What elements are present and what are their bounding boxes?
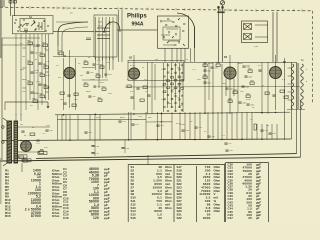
capacitor C35: [167, 95, 169, 96]
resistor R6: [40, 74, 45, 77]
svg-text:C51: C51: [122, 121, 127, 123]
wire: drop comb 1: [217, 112, 219, 140]
wire: bus bundle left 6: [37, 34, 39, 110]
svg-text:C72: C72: [97, 60, 102, 62]
wire: drop comb 5: [236, 112, 238, 140]
capacitor C43: [181, 103, 183, 104]
svg-text:C72: C72: [192, 69, 197, 71]
svg-text:R19: R19: [165, 79, 168, 81]
svg-text:0,1: 0,1: [282, 79, 286, 81]
resistor R8: [44, 86, 49, 89]
wire: S3 lead 5: [184, 48, 186, 62]
svg-text:b: b: [306, 81, 308, 83]
wire: drop comb short 1: [256, 124, 258, 140]
coil arc over S3: [177, 13, 195, 48]
svg-text:C43: C43: [248, 76, 251, 78]
S1 internal contact 11: [34, 29, 36, 31]
svg-text:100: 100: [74, 99, 78, 101]
junction on earth bus: [194, 139, 196, 141]
svg-text:1M: 1M: [266, 125, 269, 127]
svg-text:1M: 1M: [80, 75, 83, 77]
S1 internal contact 5: [33, 20, 35, 22]
resistor R2: [43, 44, 48, 47]
wire: [208, 62, 210, 100]
capacitor C38: [163, 99, 165, 100]
svg-text:1M: 1M: [155, 59, 158, 61]
wire: S2 lead down 1: [95, 57, 97, 70]
wire: drop mid 8: [184, 112, 186, 140]
junction: [103, 31, 105, 33]
wire: stub at chassis line: [199, 8, 201, 11]
wire: bus bundle left 1: [15, 34, 17, 115]
wire: drop mid 7: [179, 112, 181, 140]
S1 internal contact 10: [25, 31, 27, 33]
wire: output primary bottom: [18, 151, 40, 153]
wire: stub at chassis line: [56, 6, 58, 9]
capacitor C57: [224, 143, 227, 144]
junction on AVC bus: [261, 112, 263, 114]
wire: S2 lead down 6: [112, 57, 114, 70]
resistor R14: [72, 104, 76, 107]
wire: drop 2: [61, 115, 63, 141]
svg-text:994A: 994A: [132, 22, 144, 28]
capacitor C30: [174, 72, 176, 73]
wire: [82, 67, 95, 69]
svg-text:R22: R22: [177, 67, 180, 69]
svg-text:C52: C52: [135, 124, 140, 126]
capacitor C42: [174, 102, 176, 103]
svg-text:C57: C57: [228, 143, 233, 145]
svg-text:R62: R62: [148, 117, 153, 119]
junction in S1: [35, 28, 36, 29]
wire: [261, 62, 263, 114]
wire: [204, 62, 206, 114]
antenna terminal symbol: [220, 1, 224, 5]
S1 internal contact 14: [40, 26, 42, 28]
wire: winding tap: [288, 67, 292, 69]
wire: S2 lead down 4: [105, 57, 107, 78]
S1 internal contact 1: [14, 22, 16, 24]
svg-text:S1S2S3S4S5S6S7S8S9S10S11S12S13: S1S2S3S4S5S6S7S8S9S10S11S12S13S14S15S16: [131, 165, 137, 220]
wire: detector bundle 1: [163, 63, 165, 112]
junction: [109, 21, 110, 22]
svg-text:C55: C55: [198, 127, 203, 129]
capacitor C20: [136, 88, 139, 89]
resistor R19: [178, 76, 181, 78]
wire: drop mid 3: [145, 112, 147, 140]
capacitor C39: [171, 98, 173, 99]
svg-text:OhmOhmOhmOhmOhmOhmOhmOhmVmA%Oh: OhmOhmOhmOhmOhmOhmOhmOhmVmA%OhmOhmOhm: [214, 165, 221, 213]
resistor R4: [28, 62, 33, 65]
wire: tap: [23, 47, 26, 49]
wire: B1 side lead: [63, 58, 65, 110]
svg-text:C81: C81: [108, 93, 113, 95]
capacitor C68: [121, 148, 124, 149]
svg-text:0,05: 0,05: [100, 82, 105, 84]
border: frame inner bottom: [36, 154, 297, 159]
S3 internal contact 8: [168, 31, 170, 33]
capacitor C26: [163, 69, 165, 70]
S3 internal contact 16: [174, 44, 176, 46]
wire: mains link 2: [255, 36, 268, 38]
border: frame outer bottom: [0, 157, 301, 161]
resistor R37: [284, 96, 288, 99]
wire: stub at chassis line: [167, 8, 169, 11]
capacitor C66: [91, 146, 94, 147]
wire: drop mid 13: [212, 112, 214, 140]
junction on earth bus: [157, 139, 159, 141]
capacitor C65: [88, 96, 91, 97]
resistor R42: [254, 124, 256, 130]
wire: grid lead B2 b: [121, 10, 123, 62]
resistor R36: [280, 90, 284, 93]
svg-text:C43: C43: [245, 86, 248, 88]
capacitor C1 in S1: [24, 29, 28, 30]
resistor R41: [39, 151, 44, 154]
capacitor C54: [181, 130, 184, 131]
resistor R15: [127, 85, 131, 88]
svg-text:0,05: 0,05: [46, 75, 51, 77]
wire: antenna lead down 1: [218, 6, 220, 62]
wire: drop mid 5: [161, 112, 163, 140]
svg-text:C40: C40: [207, 82, 210, 84]
capacitor C11: [38, 84, 41, 85]
wire: detector bundle 2: [167, 63, 169, 108]
wire: curved trace right: [104, 22, 120, 33]
capacitor C46: [178, 107, 180, 108]
wire: stub at chassis line: [29, 6, 31, 9]
coil S1 inner screen: [20, 19, 45, 32]
wire: drop to table: [147, 155, 149, 165]
wire: [212, 62, 214, 114]
scan edge artifact left: [0, 0, 2, 58]
resistor R48: [96, 75, 100, 77]
svg-text:C60: C60: [272, 133, 277, 135]
wire: drop mid 12: [207, 112, 209, 140]
coil unit S1 (aerial filter box): [12, 16, 53, 34]
wire: link upper: [56, 21, 82, 23]
resistor R33: [228, 100, 232, 103]
junction on AVC bus: [161, 113, 163, 115]
wire: stub at chassis line: [81, 7, 83, 10]
mains transformer secondary winding S6: [301, 64, 304, 109]
svg-text:C24: C24: [161, 69, 164, 71]
capacitor C56: [207, 136, 210, 137]
resistor R24: [171, 83, 174, 85]
tube B2: [128, 68, 139, 79]
junction on AVC bus: [204, 112, 206, 114]
capacitor C60: [268, 133, 271, 134]
capacitor C62: [86, 72, 89, 73]
wire: [151, 62, 153, 114]
wire: stub at chassis line: [263, 9, 265, 12]
wire: [2, 37, 40, 39]
speaker cone: [3, 118, 7, 166]
wire: drop 1: [57, 115, 59, 141]
wire: secondary bus: [57, 118, 146, 120]
resistor R13: [74, 93, 78, 96]
capacitor C25: [181, 65, 183, 66]
wire: aerial lead 1: [10, 0, 12, 16]
svg-text:C64: C64: [97, 86, 102, 88]
capacitor C28: [178, 69, 180, 70]
resistor R9: [40, 95, 45, 98]
svg-text:4n7: 4n7: [174, 93, 177, 95]
svg-text:100: 100: [22, 91, 26, 93]
S3 winding bar 4: [168, 40, 180, 42]
pickup terminal 1: [2, 126, 5, 129]
svg-text:Zs: Zs: [301, 59, 304, 62]
junction on earth bus: [128, 139, 130, 141]
wire: stub at chassis line: [293, 9, 295, 12]
wire: stub at chassis line: [301, 9, 303, 12]
svg-text:R33: R33: [228, 98, 231, 100]
capacitor C63: [104, 74, 107, 75]
capacitor C24: [181, 110, 183, 111]
wire: drop 6: [89, 115, 91, 141]
wire: drop comb short 2: [261, 124, 263, 140]
svg-text:C81: C81: [36, 81, 41, 83]
tube B3: [224, 67, 236, 79]
pickup terminal 2: [2, 141, 5, 144]
svg-text:R55: R55: [20, 69, 25, 71]
wire: transformer bottom link: [287, 109, 305, 111]
wire: S2 lead down 5: [109, 57, 111, 70]
wire: mains lead down 2: [276, 12, 278, 62]
svg-text:C49: C49: [49, 130, 54, 132]
capacitor C15: [67, 95, 70, 96]
S3 winding bar 1: [162, 20, 172, 22]
wire: tap: [23, 87, 26, 89]
svg-text:0,1: 0,1: [222, 135, 226, 137]
capacitor C23: [174, 110, 176, 111]
svg-text:R62: R62: [60, 99, 65, 101]
junction: [95, 31, 97, 33]
resistor R29: [163, 91, 166, 93]
junction on AVC bus: [133, 113, 135, 115]
capacitor C22: [147, 95, 150, 96]
svg-text:5000: 5000: [180, 124, 185, 126]
wire: S3 lead 4: [180, 48, 182, 62]
wire: [57, 46, 59, 55]
capacitor C45: [258, 70, 261, 71]
mains transformer primary winding S5: [291, 64, 294, 109]
S1 internal contact 2: [18, 26, 20, 28]
S1 internal contact 3: [23, 19, 25, 21]
wire: mains link 1: [255, 24, 268, 26]
wire: grid lead B2 a: [118, 10, 120, 62]
svg-text:C65: C65: [92, 96, 97, 98]
wire: detector bundle 5: [179, 63, 181, 108]
capacitor C40a: [203, 82, 206, 83]
svg-text:1M: 1M: [20, 124, 23, 126]
svg-text:OhmOhmmHOhmOhmmHOhmµFOhmOhmOhm: OhmOhmmHOhmOhmmHOhmµFOhmOhmOhmmHOhm: [165, 165, 172, 210]
svg-text:C62: C62: [90, 72, 95, 74]
svg-text:OhmMOhmOhmOhmMOhmOhmOhmOhmMOhm: OhmMOhmOhmOhmMOhmOhmOhmOhmMOhmOhmOhmMOhm…: [52, 169, 62, 219]
wire: bus bundle left 8: [45, 34, 47, 100]
capacitor C43a: [244, 76, 247, 77]
wire: B3 centre lead: [229, 55, 231, 112]
svg-text:7002001:1295012568004700070000: 7002001:12950125680047000700001100002,53…: [199, 165, 210, 220]
resistor R40: [23, 160, 28, 163]
svg-text:R30: R30: [203, 74, 206, 76]
wire: chassis dashed line right vertical: [312, 11, 314, 104]
tube B4: [270, 67, 282, 79]
capacitor C33: [171, 91, 173, 92]
wire: HT rail: [128, 61, 296, 63]
svg-text:6800: 6800: [120, 117, 125, 119]
svg-text:47k: 47k: [58, 77, 61, 79]
junction on earth bus: [20, 140, 22, 142]
wire: mains lead down 1: [272, 12, 274, 62]
wire: tap: [46, 91, 49, 93]
svg-text:C72: C72: [46, 61, 51, 63]
wire: stub at chassis line: [227, 9, 229, 12]
S3 internal contact 11: [163, 36, 165, 38]
svg-text:C81: C81: [246, 65, 251, 67]
resistor R45: [38, 152, 47, 155]
svg-text:R19: R19: [178, 83, 181, 85]
svg-text:4700: 4700: [246, 99, 251, 101]
svg-text:R55: R55: [106, 62, 111, 64]
svg-text:B2: B2: [129, 57, 133, 60]
wire: S3 lead 2: [171, 48, 173, 62]
junction in S1: [15, 19, 16, 20]
wire: [221, 64, 223, 114]
svg-text:100: 100: [240, 91, 244, 93]
wire: chassis dashed line left: [0, 7, 240, 10]
wire: tap: [46, 71, 49, 73]
S3 winding bar 3: [161, 34, 170, 36]
svg-text:C24: C24: [171, 89, 174, 91]
wire: B4 centre lead: [275, 55, 277, 110]
S3 internal contact 14: [167, 41, 169, 43]
svg-text:C6: C6: [35, 53, 39, 55]
svg-text:R32: R32: [233, 89, 236, 91]
svg-text:Philips: Philips: [127, 14, 147, 20]
junction on earth bus: [261, 138, 263, 140]
svg-text:5k: 5k: [24, 135, 26, 137]
resistor R10: [33, 100, 38, 103]
wire: aerial lead 2: [14, 0, 16, 16]
svg-text:R62: R62: [46, 87, 51, 89]
capacitor C67: [91, 153, 94, 154]
resistor R44: [22, 159, 31, 162]
capacitor C32: [163, 76, 165, 77]
wire: drop comb short 3: [266, 124, 268, 140]
resistor R11: [59, 52, 64, 55]
capacitor C42a: [242, 66, 245, 67]
svg-text:C44: C44: [242, 102, 245, 104]
capacitor C52: [131, 124, 134, 125]
resistor R26: [167, 87, 170, 89]
svg-text:47k: 47k: [33, 46, 36, 48]
wire: stub at chassis line: [189, 8, 191, 11]
resistor R30: [203, 64, 207, 67]
wire: stub at chassis line: [43, 6, 45, 9]
wire: detector bundle 3: [171, 63, 173, 108]
wire: drop below bus 2: [124, 140, 126, 153]
wire: [4, 102, 6, 110]
resistor R20: [167, 80, 170, 82]
wire: bus bundle left 7: [41, 34, 43, 105]
screen box around B2: [128, 61, 184, 81]
svg-text:R30: R30: [203, 62, 206, 64]
resistor R51: [98, 99, 102, 101]
S3 internal contact 1: [160, 20, 162, 22]
svg-text:S17S18S19S20S21S22S23S24S25S26: S17S18S19S20S21S22S23S24S25S26S27S28S29S…: [177, 165, 183, 220]
wire: bus bundle left 2: [20, 34, 22, 115]
wire: drop mid 9: [189, 112, 191, 140]
wire: winding tap: [288, 83, 292, 85]
capacitor C21: [130, 97, 133, 98]
wire: earth bus (inner frame bottom): [2, 139, 292, 141]
svg-text:R55: R55: [44, 147, 49, 149]
tube B5 (output pentode): [21, 141, 32, 152]
S3 winding bar 2: [166, 28, 178, 30]
wire: PSU lead 1: [284, 58, 286, 140]
mains input unit box: [242, 21, 268, 43]
capacitor C61: [92, 64, 95, 65]
wire: inner frame right: [291, 62, 293, 139]
IF transformer unit S3: [158, 16, 189, 48]
wire: S2 lead down 3: [102, 57, 104, 78]
svg-text:R32: R32: [248, 68, 251, 70]
wire: drop 4: [69, 115, 71, 141]
oscillator winding block: [97, 28, 110, 39]
transformer core: [297, 63, 299, 109]
resistor R12: [60, 92, 64, 95]
resistor R34: [246, 95, 250, 98]
wire: stub at chassis line: [121, 7, 123, 10]
resistor R25: [178, 83, 181, 85]
resistor R50: [102, 88, 106, 90]
antenna coil bar: [217, 11, 224, 13]
svg-text:C63: C63: [108, 74, 113, 76]
wire: drop 8: [99, 115, 101, 141]
wire: S2 internal 1: [95, 17, 97, 60]
wire: stub at chassis line: [175, 8, 177, 11]
svg-text:C56: C56: [211, 136, 216, 138]
wire: drop comb 2: [221, 112, 223, 140]
wire: [147, 62, 149, 114]
svg-text:100470007000020470004000600001: 100470007000020470004000600001,352091025…: [242, 163, 252, 221]
svg-text:C41: C41: [214, 67, 217, 69]
resistor R5: [44, 66, 49, 69]
wire: stub at chassis line: [66, 7, 68, 10]
wire: S2 lead down 2: [98, 57, 100, 88]
svg-text:C40: C40: [207, 70, 210, 72]
S1 internal contact 7: [43, 20, 45, 22]
svg-text:14000,42101000011:110010000/25: 14000,42101000011:110010000/25,213000500…: [25, 169, 41, 219]
wire: detector bundle 6: [182, 63, 184, 112]
wire: drop comb short 4: [271, 124, 273, 140]
capacitor C41: [167, 102, 169, 103]
resistor R31: [216, 64, 220, 67]
resistor R1: [28, 42, 33, 45]
S3 internal contact 9: [175, 33, 177, 35]
resistor R21: [174, 79, 177, 81]
capacitor C36: [174, 95, 176, 96]
capacitor C58: [225, 150, 228, 151]
S3 internal contact 5: [183, 23, 185, 25]
wire: bus bundle left 9: [48, 34, 50, 100]
svg-text:48000460000,3870000100071901,1: 48000460000,3870000100071901,11300090056…: [89, 167, 99, 220]
resistor R30a: [203, 76, 207, 79]
wire: winding tap: [288, 75, 292, 77]
svg-text:5k: 5k: [32, 127, 34, 129]
svg-text:R34: R34: [246, 93, 249, 95]
